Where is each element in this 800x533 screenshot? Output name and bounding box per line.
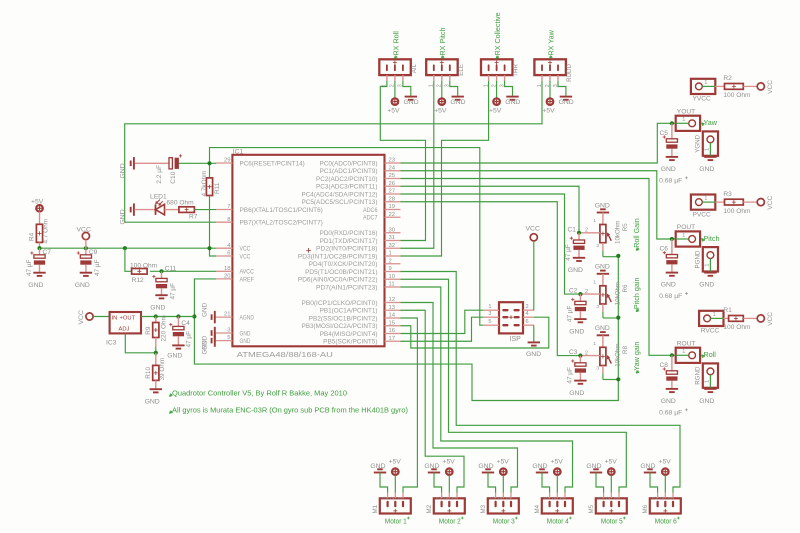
wire AREF/VREF net (pin20 to pots) <box>194 256 618 401</box>
VCC symbol after R3 <box>757 195 774 209</box>
capacitor C8 0.68 uF <box>663 355 678 389</box>
M3 pin stubs and numbers <box>490 493 511 500</box>
IC1 pin 10 PD6(AIN0/OC0A/PCINT22) <box>298 274 401 284</box>
IC1 pin 30 PD0(RXD/PCINT16) <box>320 227 401 237</box>
svg-text:C5: C5 <box>660 130 669 137</box>
VCC symbol after R1 <box>757 312 774 326</box>
svg-text:3: 3 <box>488 311 491 317</box>
R10 GND symbol <box>145 389 162 405</box>
IC1 pin 16 PB4(MISO/PCINT4) <box>320 328 401 338</box>
capacitor C2 47 uF <box>571 294 586 319</box>
svg-text:28: 28 <box>389 196 396 202</box>
svg-text:+OUT: +OUT <box>120 315 136 321</box>
label Roll <box>702 350 717 359</box>
M5 GND symbol <box>586 463 603 493</box>
C1 GND symbol <box>568 258 585 274</box>
capacitor C7 47 uF <box>30 248 45 273</box>
junction pot wiper node <box>578 292 582 296</box>
svg-text:0.68 µF: 0.68 µF <box>659 409 682 416</box>
svg-text:YOUT: YOUT <box>677 108 695 115</box>
wire PC2 to ROUT (roll gyro) <box>401 179 676 356</box>
IC1 pin 4 VCC <box>216 243 251 253</box>
svg-text:47 µF: 47 µF <box>186 331 193 348</box>
svg-text:22: 22 <box>389 212 396 218</box>
svg-text:PD0(RXD/PCINT16): PD0(RXD/PCINT16) <box>320 230 378 237</box>
svg-text:GND: GND <box>120 209 127 224</box>
svg-text:1: 1 <box>593 218 596 224</box>
ELE GND symbol <box>450 81 466 106</box>
svg-text:+5V: +5V <box>542 108 555 115</box>
IC1 pin 13 PB1(OC1A/PCINT1) <box>320 305 401 315</box>
svg-text:1: 1 <box>682 349 685 355</box>
connector RVCC <box>699 311 723 335</box>
svg-text:6: 6 <box>526 319 529 325</box>
connector AIL (3-pin header) <box>379 59 411 75</box>
svg-text:PC6(RESET/PCINT14): PC6(RESET/PCINT14) <box>240 160 305 167</box>
svg-text:GND: GND <box>28 282 43 289</box>
AIL +5V symbol <box>387 81 400 115</box>
svg-text:Roll: Roll <box>704 350 717 359</box>
svg-text:4: 4 <box>526 311 529 317</box>
RUDD pin stubs and numbers <box>542 75 558 81</box>
svg-text:GND: GND <box>699 398 714 405</box>
svg-text:+5V: +5V <box>389 459 402 466</box>
svg-text:GND: GND <box>505 99 520 106</box>
svg-text:C11: C11 <box>165 266 177 273</box>
connector M1 (Motor 1) <box>380 498 411 513</box>
svg-text:2: 2 <box>390 497 396 500</box>
svg-text:1: 1 <box>488 304 491 310</box>
svg-text:PB1(OC1A/PCINT1): PB1(OC1A/PCINT1) <box>320 308 378 315</box>
svg-text:3: 3 <box>596 366 599 372</box>
svg-text:RX Collective: RX Collective <box>493 12 502 55</box>
svg-text:19: 19 <box>389 204 396 210</box>
svg-text:1: 1 <box>398 497 404 500</box>
ISP pin numbers <box>488 304 528 325</box>
svg-text:2: 2 <box>585 228 588 234</box>
svg-text:220 Ohm: 220 Ohm <box>161 315 168 341</box>
resistor R12 100 Ohm <box>132 269 148 275</box>
M4 GND symbol <box>532 463 549 493</box>
svg-text:2: 2 <box>389 258 392 264</box>
wire VCC rail <box>40 247 217 249</box>
svg-text:17: 17 <box>389 336 396 342</box>
svg-text:3: 3 <box>436 497 442 500</box>
svg-text:7: 7 <box>227 204 230 210</box>
svg-text:1: 1 <box>593 279 596 285</box>
svg-text:100 Ohm: 100 Ohm <box>723 208 751 215</box>
svg-text:M4: M4 <box>534 504 541 513</box>
svg-text:GND: GND <box>202 340 209 355</box>
wire PB3 MOSI to ISP pin4 <box>401 317 549 348</box>
svg-text:47 µF: 47 µF <box>566 367 573 384</box>
svg-text:2: 2 <box>498 497 504 500</box>
svg-text:RX Pitch: RX Pitch <box>438 28 447 56</box>
svg-text:M5: M5 <box>588 504 595 513</box>
label Yaw <box>702 118 718 127</box>
svg-text:PB6(XTAL1/TOSC1/PCINT6): PB6(XTAL1/TOSC1/PCINT6) <box>240 207 323 214</box>
M2 GND symbol <box>424 463 441 493</box>
junction VREF at R5 <box>616 254 620 258</box>
svg-text:GND: GND <box>595 202 610 209</box>
C3 GND symbol <box>569 381 586 397</box>
IC1 pin 32 PD2(INT0/PCINT18) <box>316 243 401 253</box>
IC1 pin 25 PC2(ADC2/PCINT10) <box>316 173 401 183</box>
svg-text:PD1(TXD/PCINT17): PD1(TXD/PCINT17) <box>320 238 378 245</box>
svg-text:20: 20 <box>224 274 231 280</box>
label Motor 2 <box>439 517 464 526</box>
svg-text:14: 14 <box>389 313 396 319</box>
svg-text:Motor 6: Motor 6 <box>655 519 677 526</box>
svg-text:10kOhm: 10kOhm <box>615 221 622 244</box>
THR pin stubs and numbers <box>489 75 505 81</box>
svg-text:3: 3 <box>544 497 550 500</box>
svg-text:26: 26 <box>389 181 396 187</box>
+5V supply symbol top-left <box>31 198 44 224</box>
svg-text:GND: GND <box>595 264 610 271</box>
svg-text:VCC: VCC <box>767 195 774 209</box>
M2 +5V symbol <box>443 459 456 493</box>
IC1 pin 14 PB2(SS/OC1B/PCINT2) <box>309 313 401 323</box>
svg-text:R1: R1 <box>723 307 732 314</box>
svg-text:47 µF: 47 µF <box>94 259 101 276</box>
svg-text:IC3: IC3 <box>106 340 117 347</box>
svg-text:1: 1 <box>682 117 685 123</box>
svg-text:GND: GND <box>559 99 574 106</box>
svg-text:PD3(INT1/OC2B/PCINT19): PD3(INT1/OC2B/PCINT19) <box>298 253 378 260</box>
wire PD7 pin11 to Motor 4 <box>401 287 573 493</box>
svg-text:C7: C7 <box>43 249 52 256</box>
ISP pin stubs <box>483 310 534 325</box>
svg-text:ROUT: ROUT <box>677 340 696 347</box>
connector RGND <box>695 363 719 387</box>
svg-text:AGND: AGND <box>240 315 255 322</box>
wire RX Yaw (RUDD pin1 to PB7 pin8) <box>125 81 542 222</box>
svg-text:Motor 5: Motor 5 <box>601 519 623 526</box>
label Motor 4 <box>547 517 572 526</box>
AIL pin numbers 1 2 3 <box>382 84 404 87</box>
svg-text:GND: GND <box>120 163 127 178</box>
RUDD +5V symbol <box>542 81 555 115</box>
svg-text:16: 16 <box>389 328 396 334</box>
label RX Roll <box>391 31 400 59</box>
svg-text:PC2(ADC2/PCINT10): PC2(ADC2/PCINT10) <box>316 176 378 183</box>
M1 pin stubs and numbers <box>382 493 403 500</box>
trimmer R8 10kOhm (Yaw gain) <box>580 332 618 379</box>
svg-text:3: 3 <box>596 243 599 249</box>
svg-text:RX Roll: RX Roll <box>391 31 400 56</box>
junction VREF at regulator out <box>192 314 196 318</box>
connector YGND <box>695 131 719 155</box>
svg-text:29: 29 <box>224 158 231 164</box>
IC1 pin 6 VCC <box>216 251 251 261</box>
svg-text:47 µF: 47 µF <box>26 259 33 276</box>
svg-text:R6: R6 <box>622 284 629 292</box>
THR GND symbol <box>505 81 521 106</box>
IC1 pin 29 PC6(RESET/PCINT14) <box>216 158 305 168</box>
svg-text:ADJ: ADJ <box>119 327 130 333</box>
IC1 pin 12 PB0(ICP1/CLKO/PCINT0) <box>302 297 401 307</box>
connector M3 (Motor 3) <box>488 498 519 513</box>
svg-text:2: 2 <box>585 289 588 295</box>
capacitor C4 47 uF <box>169 317 184 346</box>
wire PC4 to pitch gain pot <box>401 194 581 294</box>
svg-text:PC5(ADC5/SCL/PCINT13): PC5(ADC5/SCL/PCINT13) <box>302 199 378 206</box>
C5 value 0.68 uF <box>659 176 688 184</box>
M3 GND symbol <box>478 463 495 493</box>
ELE pin numbers 1 2 3 <box>429 84 451 87</box>
svg-text:1: 1 <box>704 264 710 267</box>
svg-text:GND: GND <box>202 302 209 317</box>
connector ISP 2x3 header <box>499 302 523 333</box>
svg-text:47 µF: 47 µF <box>566 306 573 323</box>
svg-text:PD7(AIN1/PCINT23): PD7(AIN1/PCINT23) <box>316 284 378 291</box>
svg-text:All gyros is Murata ENC-03R (O: All gyros is Murata ENC-03R (On gyro sub… <box>172 406 408 415</box>
svg-text:PC1(ADC1/PCINT9): PC1(ADC1/PCINT9) <box>320 168 378 175</box>
junction VCC rail at pin4 <box>207 246 211 250</box>
svg-text:VCC: VCC <box>767 80 774 94</box>
svg-text:R7: R7 <box>189 214 198 221</box>
svg-text:GND: GND <box>526 351 541 358</box>
svg-text:AREF: AREF <box>240 276 255 283</box>
svg-text:+5V: +5V <box>387 108 400 115</box>
connector RUDD (3-pin header) <box>534 59 566 75</box>
svg-text:1: 1 <box>614 497 620 500</box>
svg-text:100 Ohm: 100 Ohm <box>130 262 158 269</box>
capacitor C5 0.68 uF <box>663 123 678 157</box>
svg-text:5: 5 <box>488 319 491 325</box>
junction reg out at R9 <box>154 314 158 318</box>
resistor R11 4.7kOhm (reset pull-up) <box>206 178 212 248</box>
wire RX Collective (THR pin1 to PD3 pin1) <box>401 81 489 256</box>
svg-text:RUDD: RUDD <box>566 63 573 81</box>
svg-text:GND: GND <box>150 304 165 311</box>
svg-text:1: 1 <box>593 341 596 347</box>
svg-text:PB2(SS/OC1B/PCINT2): PB2(SS/OC1B/PCINT2) <box>309 315 378 322</box>
IC1 pin 31 PD1(TXD/PCINT17) <box>320 235 401 245</box>
junction pot wiper node <box>577 231 581 235</box>
svg-text:PC3(ADC3/PCINT11): PC3(ADC3/PCINT11) <box>316 184 378 191</box>
svg-text:THR: THR <box>513 63 520 76</box>
IC1 pin 22 ADC7 <box>363 212 401 222</box>
AIL pin stubs and numbers <box>387 75 403 81</box>
svg-text:Yaw: Yaw <box>704 118 718 127</box>
AGND pin21 GND symbol <box>202 302 217 323</box>
svg-text:+5V: +5V <box>489 108 502 115</box>
svg-text:0.68 µF: 0.68 µF <box>659 177 682 184</box>
svg-text:C6: C6 <box>660 246 669 253</box>
svg-text:VCC: VCC <box>78 310 85 324</box>
svg-text:GND: GND <box>699 166 714 173</box>
wire PC3 to roll gain pot <box>401 186 580 233</box>
svg-text:PGND: PGND <box>695 250 702 268</box>
svg-text:3: 3 <box>652 497 658 500</box>
svg-text:PB3(MOSI/OC2A/PCINT3): PB3(MOSI/OC2A/PCINT3) <box>302 323 378 330</box>
op IC1 ATMEGA48/88/168-AU body <box>232 155 384 346</box>
label Yaw gain <box>632 342 641 374</box>
svg-text:ATMEGA48/88/168-AU: ATMEGA48/88/168-AU <box>237 350 333 359</box>
wire PD6 pin10 to Motor 5 <box>401 279 627 492</box>
VCC symbol at IC3 input <box>78 310 110 324</box>
label RX Yaw <box>546 29 555 58</box>
svg-text:M6: M6 <box>642 504 649 513</box>
C5 GND symbol <box>661 157 678 173</box>
svg-text:VCC: VCC <box>240 246 251 253</box>
M1 GND symbol <box>370 463 387 493</box>
svg-text:Roll Gain: Roll Gain <box>632 218 641 248</box>
svg-text:R8: R8 <box>622 346 629 354</box>
svg-text:32: 32 <box>389 243 396 249</box>
svg-text:1: 1 <box>560 497 566 500</box>
wire PB4 MISO to ISP pin1 <box>401 310 484 333</box>
connector M4 (Motor 4) <box>542 498 573 513</box>
svg-text:4.7kOhm: 4.7kOhm <box>201 171 208 197</box>
svg-text:39 Ohm: 39 Ohm <box>159 358 166 381</box>
M5 +5V symbol <box>605 459 618 493</box>
svg-text:AIL: AIL <box>411 63 418 73</box>
svg-text:25: 25 <box>389 173 396 179</box>
resistor R4 4.7 Ohm <box>36 224 42 248</box>
svg-text:R2: R2 <box>723 75 732 82</box>
resistor R9 220 Ohm <box>153 317 159 353</box>
label Motor 6 <box>655 517 680 526</box>
svg-text:GND: GND <box>75 282 90 289</box>
svg-text:GND: GND <box>450 99 465 106</box>
svg-text:ISP: ISP <box>510 336 522 343</box>
ELE +5V symbol <box>434 81 447 115</box>
regulator IC3 body <box>110 312 141 333</box>
capacitor C10 2.2 uF <box>135 154 183 169</box>
svg-text:GND: GND <box>661 282 676 289</box>
wire PB5 SCK to ISP pin3 <box>401 317 484 341</box>
GND pin5 symbol <box>202 334 217 354</box>
svg-text:YVCC: YVCC <box>693 96 712 103</box>
wire PC1 to POUT (pitch gyro) <box>401 171 676 239</box>
svg-text:2: 2 <box>526 304 529 310</box>
label Pitch <box>702 234 720 243</box>
svg-text:C10: C10 <box>170 171 177 183</box>
svg-text:11: 11 <box>389 282 395 288</box>
svg-text:R12: R12 <box>132 277 144 284</box>
label Motor 5 <box>601 517 626 526</box>
M2 pin stubs and numbers <box>436 493 457 500</box>
connector ROUT <box>676 340 700 363</box>
svg-text:+5V: +5V <box>551 459 564 466</box>
svg-text:2: 2 <box>660 497 666 500</box>
ELE pin stubs and numbers <box>434 75 450 81</box>
IC1 pin 27 PC4(ADC4/SDA/PCINT12) <box>302 189 401 199</box>
IC1 pin 17 PB5(SCK/PCINT5) <box>323 336 400 346</box>
svg-text:21: 21 <box>224 312 231 318</box>
connector YVCC <box>691 79 715 103</box>
svg-text:Quadrotor Controller V5, By Ro: Quadrotor Controller V5, By Rolf R Bakke… <box>172 389 347 398</box>
svg-text:4.7 Ohm: 4.7 Ohm <box>43 219 50 244</box>
svg-text:R4: R4 <box>29 232 36 241</box>
trimmer R5 10kOhm (Roll Gain) <box>579 209 618 256</box>
YGND ground symbol <box>699 157 716 173</box>
svg-text:R11: R11 <box>214 182 221 194</box>
svg-text:1: 1 <box>452 497 458 500</box>
svg-text:+5V: +5V <box>659 459 672 466</box>
svg-text:VCC: VCC <box>767 312 774 326</box>
svg-text:RVCC: RVCC <box>701 328 720 335</box>
VCC symbol above C9 <box>77 227 91 249</box>
capacitor C1 47 uF <box>570 233 585 258</box>
IC1 pin 9 PD5(T1/OC0B/PCINT21) <box>305 266 400 276</box>
resistor R7 680 Ohm <box>165 207 217 213</box>
svg-text:+5V: +5V <box>434 108 447 115</box>
wire RX Pitch (ELE pin1 to PD2 pin32) <box>401 81 434 248</box>
svg-text:27: 27 <box>389 189 396 195</box>
PGND ground symbol <box>699 273 716 289</box>
svg-text:PC4(ADC4/SDA/PCINT12): PC4(ADC4/SDA/PCINT12) <box>302 191 378 198</box>
junction C8 at ROUT <box>670 353 674 357</box>
svg-text:GND: GND <box>661 166 676 173</box>
RUDD pin numbers 1 2 3 <box>537 84 559 87</box>
wire IC3 ADJ to divider <box>125 333 156 352</box>
junction VCC rail at C9 <box>84 246 88 250</box>
IC1 pin 8 PB7(XTAL2/TOSC2/PCINT7) <box>216 217 323 227</box>
wire PC0 to YOUT (yaw gyro) <box>401 123 676 163</box>
svg-text:GND: GND <box>404 99 419 106</box>
svg-text:PC0(ADC0/PCINT8): PC0(ADC0/PCINT8) <box>320 160 378 167</box>
wire PC5 to yaw gain pot <box>401 202 581 356</box>
svg-text:23: 23 <box>389 158 396 164</box>
junction pot wiper node <box>578 354 582 358</box>
GND pin3 symbol <box>202 327 217 350</box>
junction C5 at YOUT <box>670 121 674 125</box>
svg-text:R3: R3 <box>723 191 732 198</box>
svg-text:GND: GND <box>568 267 583 274</box>
M1 +5V symbol <box>389 459 402 493</box>
svg-text:C4: C4 <box>181 320 190 327</box>
C9 GND symbol <box>75 273 92 289</box>
IC1 pin 24 PC1(ADC1/PCINT9) <box>320 165 401 175</box>
svg-text:R5: R5 <box>622 223 629 231</box>
label Motor 3 <box>493 517 518 526</box>
junction AVCC at C11 <box>159 269 163 273</box>
connector M2 (Motor 2) <box>434 498 465 513</box>
svg-text:+5V: +5V <box>31 198 44 205</box>
R6 pin labels <box>585 279 599 310</box>
svg-text:Pitch: Pitch <box>704 234 720 243</box>
svg-text:3: 3 <box>490 497 496 500</box>
trimmer R6 10kOhm (Pitch gain) <box>580 271 618 318</box>
junction ADJ divider <box>154 351 158 355</box>
svg-text:C9: C9 <box>89 249 98 256</box>
connector YOUT <box>676 108 700 131</box>
svg-text:RGND: RGND <box>695 366 702 385</box>
svg-text:ADC7: ADC7 <box>363 215 378 222</box>
svg-text:100 Ohm: 100 Ohm <box>723 92 751 99</box>
M6 pin stubs and numbers <box>652 493 673 500</box>
svg-text:2.2 µF: 2.2 µF <box>156 165 163 184</box>
capacitor C9 47 uF <box>77 248 92 273</box>
R8 pin labels <box>585 341 599 372</box>
svg-text:2: 2 <box>444 497 450 500</box>
IC1 pin 15 PB3(MOSI/OC2A/PCINT3) <box>302 320 401 330</box>
svg-text:C2: C2 <box>569 288 578 295</box>
svg-text:ELE: ELE <box>458 64 465 76</box>
svg-text:M3: M3 <box>480 504 487 513</box>
svg-text:PD6(AIN0/OC0A/PCINT22): PD6(AIN0/OC0A/PCINT22) <box>298 277 378 284</box>
label RX Pitch <box>438 28 447 59</box>
svg-text:+5V: +5V <box>443 459 456 466</box>
svg-text:GND: GND <box>661 398 676 405</box>
resistor R1 100 Ohm <box>724 316 758 322</box>
resistor R3 100 Ohm <box>715 199 757 205</box>
connector ELE (3-pin header) <box>426 59 458 75</box>
